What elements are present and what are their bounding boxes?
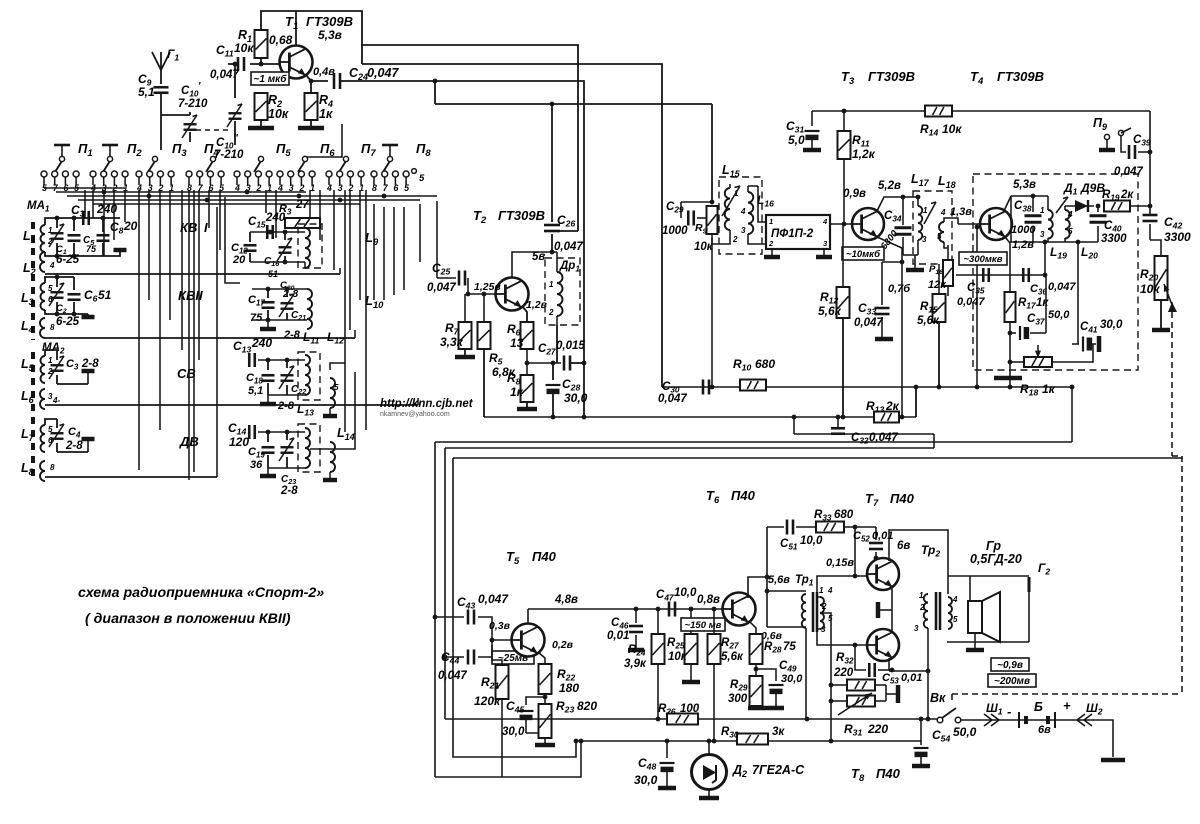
label L13	[297, 402, 314, 418]
svg-text:10к: 10к	[268, 107, 289, 121]
capacitor C13	[233, 336, 272, 367]
watermark email	[380, 411, 450, 418]
svg-text:~10мкб: ~10мкб	[846, 249, 881, 260]
coil L5	[21, 356, 53, 383]
coil L3	[21, 283, 53, 310]
detector dashed box	[973, 174, 1138, 370]
svg-text:3: 3	[914, 624, 919, 633]
capacitor C35	[957, 268, 989, 308]
wire R1 bottom to base node	[250, 58, 289, 66]
svg-text:1: 1	[923, 206, 928, 215]
voltage box ~200mv	[988, 674, 1036, 687]
switch lever P5	[254, 141, 291, 172]
svg-text:10,0: 10,0	[800, 535, 823, 547]
connector Sh2	[1077, 701, 1103, 726]
svg-text:http://knn.cjb.net: http://knn.cjb.net	[380, 398, 474, 410]
capacitor C34	[879, 197, 924, 270]
svg-text:( диапазон в положении: ( диапазон в положении КВII)	[85, 611, 291, 627]
wire L17 top	[916, 195, 921, 206]
trimmer C21	[279, 289, 306, 322]
svg-text:1: 1	[549, 280, 554, 289]
resistor R23	[539, 694, 598, 738]
trimmer C23	[279, 432, 298, 497]
wire tank2 wiring	[252, 287, 307, 341]
svg-text:5,6к: 5,6к	[721, 651, 744, 663]
wire filter pin1	[758, 186, 766, 222]
svg-text:820: 820	[577, 699, 597, 713]
svg-text:nkamnev@yahoo.com: nkamnev@yahoo.com	[380, 411, 450, 418]
wire R4 to ground	[310, 120, 312, 128]
wire antenna to switch P3	[160, 93, 162, 150]
svg-text:СВ: СВ	[177, 366, 196, 381]
capacitor C33	[854, 262, 911, 339]
svg-text:4: 4	[940, 208, 946, 217]
svg-text:1к: 1к	[1036, 297, 1049, 309]
svg-text:5: 5	[1068, 227, 1073, 236]
wire T5 collector	[528, 594, 722, 623]
IF transformer 2 L17 L18	[911, 172, 956, 264]
svg-text:8: 8	[50, 463, 55, 472]
resistor R2	[255, 93, 289, 121]
wire T1 emitter to R4/C24 node	[306, 66, 335, 93]
ground under R23	[535, 738, 555, 745]
wire L16 to filter	[748, 186, 766, 244]
wire caps join to T5 base	[478, 617, 511, 657]
IF transformer L15 box	[719, 177, 762, 254]
svg-text:51: 51	[268, 269, 278, 279]
svg-text:ГТ309В: ГТ309В	[868, 69, 915, 84]
wire R24 bottom	[657, 664, 659, 719]
wire C24 output run to x584	[340, 81, 584, 417]
wire T3 collector tank	[877, 195, 918, 211]
svg-text:10к: 10к	[234, 41, 254, 55]
detector bias wire y275	[956, 274, 1046, 276]
antenna G1	[152, 47, 179, 84]
label MA2	[42, 342, 65, 356]
svg-text:2-8: 2-8	[280, 485, 298, 497]
transistor T7	[826, 557, 899, 590]
coil L1	[23, 225, 53, 252]
driver transformer Tr1	[768, 574, 833, 634]
wire DV tank enclosure	[310, 372, 355, 449]
svg-text:680: 680	[755, 357, 775, 371]
label T4	[970, 69, 1044, 86]
coil L14	[298, 424, 355, 472]
capacitor C12	[231, 232, 257, 266]
svg-text:5,3в: 5,3в	[318, 28, 342, 42]
svg-text:Вк: Вк	[930, 691, 946, 705]
wire L18 to T4 base	[940, 206, 980, 248]
switch Vk	[930, 691, 961, 723]
svg-text:6-25: 6-25	[56, 254, 80, 266]
wire L7 top bus	[45, 419, 57, 425]
svg-text:1к: 1к	[319, 107, 333, 121]
svg-text:5,6к: 5,6к	[917, 315, 940, 327]
resistor R21	[474, 645, 509, 708]
label KV II	[178, 288, 203, 303]
switch lever P4	[204, 141, 219, 172]
svg-text:180: 180	[559, 681, 579, 695]
label R18	[1020, 382, 1056, 398]
transistor T5	[512, 624, 574, 657]
voltage box ~25mv	[492, 651, 534, 664]
vertical wire x404	[403, 207, 405, 290]
voltage box ~0.9v	[991, 658, 1029, 671]
parallel C29 R9 block	[681, 200, 714, 205]
capacitor C46	[607, 607, 644, 650]
switch P9	[1093, 116, 1131, 150]
resistor R13 2k	[866, 399, 900, 423]
svg-text:2: 2	[821, 602, 827, 611]
svg-text:5,6в: 5,6в	[768, 574, 790, 586]
label DV	[179, 434, 199, 449]
wire supply to C26	[551, 104, 553, 222]
ground block3	[57, 370, 95, 384]
switch contact group 5	[234, 171, 272, 193]
thermistor R31 (lower of pair)	[829, 693, 875, 715]
resistor R32 (upper of pair)	[829, 680, 875, 691]
capacitor C30	[658, 380, 709, 406]
svg-text:5,6к: 5,6к	[818, 304, 842, 318]
wire L8 bottom long	[45, 207, 217, 477]
svg-text:~300мкв: ~300мкв	[964, 254, 1003, 265]
capacitor C8	[97, 218, 138, 256]
wire R2 to ground	[260, 120, 262, 128]
osc wire y64 to mixer	[362, 64, 662, 387]
svg-text:5: 5	[937, 232, 942, 241]
wire AGC to T4 base	[975, 225, 980, 390]
svg-text:12к: 12к	[928, 279, 947, 291]
resistor R22	[539, 664, 580, 695]
wire T5 emitter	[538, 652, 545, 664]
resistor R5	[478, 292, 516, 379]
capacitor C54 electrolytic	[912, 719, 977, 766]
coil L12 coupling	[330, 378, 339, 408]
resistor R29	[728, 664, 763, 706]
svg-text:0,047: 0,047	[554, 241, 583, 253]
coil L15	[722, 163, 741, 244]
AGC bus y387	[662, 385, 1074, 390]
wire L1 top bus	[45, 216, 120, 225]
svg-text:0,047: 0,047	[427, 282, 456, 294]
svg-text:3к: 3к	[772, 726, 785, 738]
svg-text:схема радиоприемника «Спор: схема радиоприемника «Спорт-2»	[78, 585, 324, 601]
wire R5 bottom to bus	[483, 349, 485, 417]
voltage box ~1mkb	[251, 72, 289, 85]
wire speaker top	[948, 576, 1029, 601]
svg-text:300: 300	[728, 693, 748, 705]
svg-text:4: 4	[952, 595, 958, 604]
svg-text:10к: 10к	[668, 651, 688, 663]
svg-text:7ГЕ2А-С: 7ГЕ2А-С	[752, 763, 805, 777]
svg-text:30,0: 30,0	[1100, 319, 1123, 331]
wire Tr1 sec pin1 to T7 base	[817, 576, 867, 597]
vertical wire x394	[393, 207, 395, 295]
volume pot R20	[1140, 240, 1174, 310]
svg-text:5,1: 5,1	[248, 385, 263, 397]
resistor R8	[507, 349, 534, 402]
wire R19 out to C42	[1129, 204, 1152, 209]
svg-text:0,68: 0,68	[269, 33, 293, 47]
wire T4 collector	[1003, 196, 1048, 242]
svg-text:-: -	[1007, 704, 1011, 719]
resistor R24	[624, 607, 665, 670]
svg-text:0,4в: 0,4в	[313, 66, 335, 78]
svg-text:1000: 1000	[1011, 224, 1036, 236]
capacitor C45 electrolytic	[502, 697, 545, 738]
wire R27 bottom	[713, 664, 715, 741]
wire R12 bottom to bus	[842, 318, 844, 417]
wire pot to C41	[1052, 344, 1093, 362]
trimmer C22	[279, 360, 306, 396]
svg-text:5: 5	[953, 615, 958, 624]
switch lever P2	[102, 141, 142, 172]
capacitor C18	[246, 360, 275, 397]
supply wire y45 to C26	[362, 45, 578, 231]
label T8	[851, 766, 901, 783]
switch lever P6	[298, 141, 335, 172]
svg-text:5: 5	[419, 173, 425, 184]
label 6-25 (block2)	[56, 316, 80, 328]
label T2	[473, 208, 545, 225]
svg-text:~0,9в: ~0,9в	[997, 660, 1023, 671]
capacitor C15	[248, 212, 286, 239]
svg-text:4: 4	[1067, 210, 1073, 219]
dashed AVC link	[952, 302, 1182, 704]
emitters common ground	[878, 587, 892, 632]
vertical wire x384	[383, 207, 385, 300]
ground det bottom	[994, 376, 1022, 381]
wire T3 emitter	[877, 237, 904, 419]
label T3	[841, 69, 915, 86]
svg-text:0,8в: 0,8в	[697, 594, 720, 606]
svg-text:1: 1	[48, 356, 53, 365]
svg-text:2-8: 2-8	[283, 329, 301, 341]
resistor R16	[928, 245, 953, 296]
transistor T1	[280, 14, 354, 79]
output transformer Tr2	[914, 591, 958, 633]
svg-text:240: 240	[265, 212, 286, 224]
svg-text:0,15в: 0,15в	[826, 557, 854, 569]
switch contact group 6	[277, 171, 315, 193]
wire feedback to base/C52	[844, 525, 876, 579]
diode D2	[692, 739, 806, 798]
L15 tuning arrow	[722, 186, 740, 216]
wire L1 bottom bus	[45, 252, 103, 258]
label L11 L12	[303, 330, 344, 346]
svg-text:3: 3	[741, 226, 746, 235]
capacitor C27	[527, 340, 585, 371]
wire L20 bottom down	[1077, 242, 1079, 344]
switch contact group 1	[41, 171, 79, 193]
svg-text:4: 4	[822, 217, 828, 226]
svg-text:6в: 6в	[1038, 724, 1051, 736]
coil L10	[307, 289, 384, 329]
svg-text:30,0: 30,0	[781, 673, 803, 685]
wire T7 collector to Tr2	[889, 530, 948, 594]
svg-text:8: 8	[50, 323, 55, 332]
svg-text:2-8: 2-8	[277, 400, 295, 412]
ground block2	[82, 314, 95, 317]
transistor T4	[980, 179, 1036, 240]
transistor T3	[843, 180, 901, 240]
wire C32 line	[792, 415, 934, 448]
trimmer capacitor C10''	[214, 104, 244, 161]
svg-text:4,8в: 4,8в	[554, 594, 578, 606]
wire L3 top bus	[45, 275, 74, 283]
trimmer C1	[49, 218, 67, 256]
piezo filter PF1P-2 box	[766, 215, 830, 249]
svg-text:100: 100	[680, 703, 700, 715]
caption line 1	[78, 585, 324, 601]
svg-text:10к: 10к	[1140, 282, 1160, 296]
wire battery to ground	[1096, 720, 1125, 760]
vertical wire x374	[373, 204, 375, 300]
capacitor C53	[855, 645, 922, 685]
svg-text:5,3в: 5,3в	[1013, 179, 1036, 191]
wire L16 top to pin1	[748, 185, 758, 187]
svg-text:5: 5	[404, 183, 409, 193]
svg-text:0,047: 0,047	[438, 670, 467, 682]
wire filter out to T3 base	[830, 223, 852, 225]
svg-text:1,25в: 1,25в	[474, 281, 501, 293]
ground under R29 C49	[748, 703, 784, 708]
wire R15 bottom	[938, 322, 940, 387]
svg-text:4-: 4-	[52, 396, 60, 405]
supply rail y104	[435, 102, 712, 202]
svg-text:0,047: 0,047	[1114, 166, 1143, 178]
svg-text:220: 220	[833, 667, 854, 679]
battery B	[1019, 698, 1071, 736]
svg-text:1,3в: 1,3в	[950, 206, 972, 218]
wire L2 bottom long	[45, 268, 340, 274]
resistor R11	[838, 111, 876, 161]
wire R21 bottom	[501, 699, 503, 777]
svg-text:50,0: 50,0	[953, 725, 977, 739]
wire T8 collector	[888, 658, 890, 671]
svg-text:0,01: 0,01	[872, 530, 893, 542]
svg-text:3: 3	[1040, 230, 1045, 239]
label T5	[506, 549, 557, 566]
svg-text:2к: 2к	[885, 399, 900, 413]
capacitor C24	[334, 66, 399, 89]
capacitor C51	[767, 520, 823, 552]
capacitor C52	[853, 527, 893, 560]
svg-text:220: 220	[867, 722, 888, 736]
coil L7	[21, 425, 53, 452]
svg-text:Гр: Гр	[986, 539, 1001, 553]
wire C24 drop x435	[433, 79, 438, 104]
svg-text:75: 75	[783, 641, 796, 653]
svg-text:I: I	[204, 220, 208, 235]
svg-text:0,2в: 0,2в	[552, 639, 574, 651]
svg-text:ГТ309В: ГТ309В	[306, 14, 353, 29]
capacitor C28 electrolytic	[546, 361, 588, 417]
det bottom rail	[1010, 240, 1098, 245]
capacitor C40	[1090, 204, 1128, 245]
switch lever P1	[54, 141, 93, 172]
vertical wire x437 to T2 base	[436, 201, 438, 278]
svg-text:П40: П40	[532, 549, 557, 564]
coil L11	[298, 352, 320, 400]
voltage box ~10mkb	[842, 247, 884, 260]
svg-text:0,047: 0,047	[367, 66, 399, 80]
wire choke bottom	[556, 325, 558, 363]
wire Tr1 sec pin2 tap	[822, 613, 831, 741]
ferrite rod MA2 (dashed)	[31, 352, 35, 480]
bus y777 outer	[435, 739, 583, 777]
watermark url	[380, 398, 474, 410]
svg-text:5,1: 5,1	[138, 85, 155, 99]
L19 tuning arrow	[1056, 197, 1068, 213]
svg-text:Б: Б	[1034, 700, 1043, 714]
resistor R9	[694, 206, 718, 253]
label KV I	[180, 220, 208, 235]
capacitor C44	[438, 650, 474, 683]
resistor R15	[917, 264, 946, 327]
svg-text:1: 1	[819, 586, 824, 595]
capacitor C19	[248, 432, 275, 471]
capacitor C37 electrolytic	[1010, 275, 1070, 340]
wire T2 emitter	[522, 306, 527, 322]
connector Sh1	[984, 701, 1011, 726]
svg-text:3: 3	[922, 235, 927, 244]
tone pot	[1008, 345, 1052, 367]
trimmer C4	[49, 419, 83, 452]
resistor R12	[818, 224, 850, 318]
wire Tr1 primary bottom	[767, 627, 806, 719]
svg-text:0,3в: 0,3в	[489, 620, 511, 632]
coil L2	[23, 252, 55, 277]
ferrite rod MA1 (dashed)	[31, 222, 35, 340]
svg-text:0,047: 0,047	[658, 393, 687, 405]
ground block4	[57, 438, 95, 452]
svg-text:2: 2	[919, 603, 925, 612]
capacitor C9	[138, 72, 169, 99]
capacitor C49 electrolytic	[756, 660, 803, 703]
resistor R10	[733, 357, 775, 391]
svg-text:1,2в: 1,2в	[1012, 239, 1034, 251]
svg-text:4: 4	[49, 261, 55, 270]
svg-text:20: 20	[232, 254, 246, 266]
svg-text:П40: П40	[876, 766, 901, 781]
svg-text:75: 75	[86, 244, 97, 254]
capacitor C17	[248, 289, 275, 324]
transistor T8	[867, 629, 899, 661]
svg-text:36: 36	[250, 459, 263, 471]
svg-text:30,0: 30,0	[564, 391, 588, 405]
capacitor C32	[831, 415, 898, 446]
svg-text:П40: П40	[731, 488, 756, 503]
svg-text:27: 27	[295, 199, 309, 211]
svg-text:2-8: 2-8	[65, 440, 83, 452]
caption line 2	[85, 611, 291, 627]
wire T6 collector	[748, 527, 806, 627]
ground filter pin3	[816, 249, 832, 257]
wire tank4 wiring	[258, 430, 337, 480]
label 6v Tr2	[897, 540, 940, 559]
resistor R27	[708, 607, 744, 664]
ground under R8	[517, 402, 537, 409]
label MA1	[27, 200, 50, 214]
resistor R14	[920, 106, 962, 138]
supply rail y111	[812, 109, 1150, 114]
svg-text:0,047: 0,047	[854, 317, 883, 329]
switch contact 5 terminal	[412, 169, 425, 184]
capacitor C38	[1011, 194, 1042, 251]
svg-text:1: 1	[310, 183, 315, 193]
trimmer C2	[49, 277, 67, 315]
